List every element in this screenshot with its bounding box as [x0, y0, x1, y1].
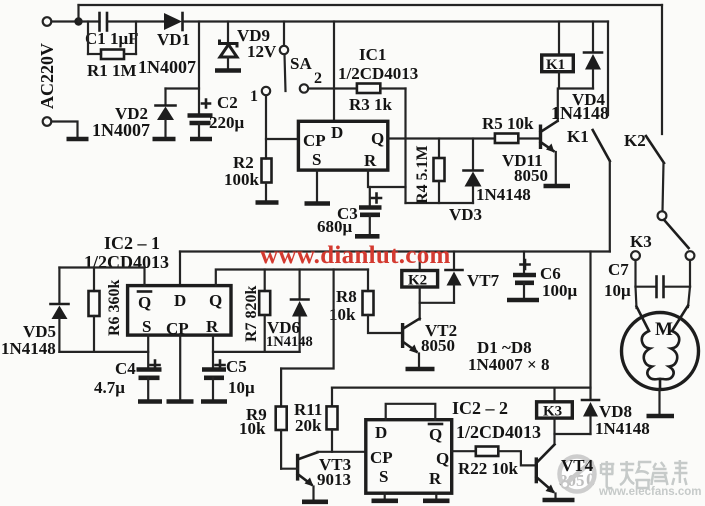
svg-text:1: 1 — [250, 88, 258, 105]
svg-text:10μ: 10μ — [604, 281, 631, 300]
wire R3 drop to R node — [404, 89, 406, 204]
label 1N4007 — [92, 120, 150, 140]
wire D pin riser IC2-1 — [179, 252, 181, 286]
svg-text:M: M — [655, 319, 673, 340]
svg-text:Q: Q — [209, 291, 222, 310]
svg-text:R: R — [206, 317, 219, 336]
wire R7 VD6 bottom line — [213, 351, 300, 353]
label AC220V — [37, 43, 57, 109]
capacitor C6 — [513, 252, 536, 298]
wire 12V rail drop to K1 contact — [607, 22, 609, 116]
ground IC2-2 R — [423, 498, 450, 503]
watermark elecfans logo — [560, 457, 595, 492]
svg-text:C5: C5 — [226, 357, 247, 376]
capacitor C4 — [137, 361, 162, 399]
ground VD11 emitter — [544, 184, 571, 189]
label VT3 — [319, 455, 351, 474]
resistor R4 — [434, 139, 445, 204]
label 100u — [542, 281, 578, 300]
pin CP — [303, 131, 326, 150]
label C1 1uF — [85, 29, 139, 48]
wire VD8 to K3 bottom — [555, 433, 591, 435]
label SA — [290, 54, 312, 73]
wire VT3 collector to CP — [317, 451, 365, 453]
pin R — [206, 317, 219, 336]
label R11 — [294, 400, 322, 419]
zener VD9 — [220, 22, 238, 69]
wire contact1 down — [265, 96, 267, 159]
label 10k — [239, 419, 266, 438]
node junction dot — [74, 17, 82, 25]
capacitor C3 — [359, 187, 382, 234]
label VD2 — [115, 104, 148, 123]
label K3 — [630, 232, 652, 251]
svg-text:C2: C2 — [217, 93, 238, 112]
resistor R7 — [259, 270, 270, 352]
op-amp IC1 box — [298, 121, 387, 170]
label C2 — [217, 93, 238, 112]
svg-text:10μ: 10μ — [228, 378, 255, 397]
ground C4 — [138, 399, 162, 404]
svg-text:SA: SA — [290, 54, 312, 73]
pin S — [312, 150, 321, 169]
svg-text:K1: K1 — [546, 57, 565, 73]
ground motor — [647, 414, 675, 419]
svg-text:220μ: 220μ — [209, 113, 245, 132]
pin Q — [436, 449, 449, 468]
label 1 — [250, 88, 258, 105]
svg-text:R8: R8 — [336, 287, 357, 306]
svg-text:C1 1μF: C1 1μF — [85, 29, 139, 48]
label C5 — [226, 357, 247, 376]
label R2 — [233, 153, 254, 172]
capacitor C7 — [636, 260, 691, 297]
wire K1 drop to K3 branch — [589, 252, 591, 400]
label 20k — [295, 416, 322, 435]
label R22 10k — [458, 459, 519, 478]
label R8 — [336, 287, 357, 306]
wire lower terminal — [52, 122, 78, 137]
label R4 5.1M — [414, 145, 431, 204]
svg-text:9013: 9013 — [317, 470, 351, 489]
ground VD2 — [153, 137, 176, 142]
wire R11 K3 top line — [332, 387, 591, 389]
transistor VT3 — [281, 452, 317, 499]
wire S pin stem — [147, 335, 149, 369]
label 10u — [604, 281, 631, 300]
svg-text:100μ: 100μ — [542, 281, 578, 300]
svg-text:Q: Q — [436, 449, 449, 468]
resistor R2 — [262, 159, 272, 201]
switch K3 selector blade — [631, 220, 694, 260]
label 1N4007 — [138, 57, 196, 77]
label K2 — [624, 131, 646, 150]
svg-text:Q: Q — [138, 293, 151, 312]
ground R2 — [256, 200, 279, 205]
svg-text:680μ: 680μ — [317, 217, 353, 236]
transistor VT2 — [403, 319, 420, 367]
svg-text:CP: CP — [303, 131, 326, 150]
wire R9 feed drop — [281, 270, 334, 369]
label VT7 — [467, 271, 500, 290]
label R1 1M — [87, 61, 137, 80]
label VD4 — [572, 90, 606, 109]
svg-text:1N4148: 1N4148 — [476, 185, 531, 204]
label 1N4148 — [266, 334, 313, 350]
svg-text:VD1: VD1 — [157, 30, 190, 49]
label 10k — [329, 305, 356, 324]
pin Qbar — [429, 424, 442, 444]
label VD8 — [599, 402, 632, 421]
label VD1 — [157, 30, 190, 49]
ground C6 — [507, 298, 539, 303]
diode VD2 — [156, 106, 176, 137]
label VD11 — [502, 151, 543, 170]
label 220u — [209, 113, 245, 132]
svg-text:K3: K3 — [543, 404, 562, 420]
label 8050 — [421, 336, 455, 355]
label 10u — [228, 378, 255, 397]
label VT4 — [561, 456, 594, 475]
ground VT4 — [543, 498, 575, 503]
ground VT3 — [302, 499, 328, 504]
pin CP — [370, 448, 393, 467]
pin D — [331, 123, 343, 142]
svg-text:www.dianlut.com: www.dianlut.com — [260, 242, 451, 269]
svg-text:R: R — [364, 151, 377, 170]
resistor R9 — [276, 369, 287, 469]
svg-text:R22 10k: R22 10k — [458, 459, 519, 478]
label VD9 — [237, 26, 270, 45]
pin Q — [371, 129, 384, 148]
svg-text:R: R — [429, 469, 442, 488]
svg-text:Q: Q — [371, 129, 384, 148]
wire Q output line — [388, 137, 495, 139]
svg-text:12V: 12V — [247, 42, 277, 61]
label 1/2CD4013 — [84, 252, 169, 272]
svg-text:4.7μ: 4.7μ — [94, 378, 125, 397]
label C3 — [337, 204, 358, 223]
flip-flop IC2-1 box — [128, 286, 231, 336]
diode VT7 — [446, 252, 463, 303]
svg-text:1/2CD4013: 1/2CD4013 — [338, 64, 418, 83]
label 9013 — [317, 470, 351, 489]
svg-text:www.elecfans.com: www.elecfans.com — [598, 486, 701, 498]
label 680u — [317, 217, 353, 236]
svg-text:1N4148: 1N4148 — [266, 334, 313, 350]
ground C2 — [190, 137, 212, 142]
svg-text:D: D — [174, 291, 186, 310]
label 1N4148 — [551, 103, 609, 123]
label 1/2CD4013 — [338, 64, 418, 83]
svg-text:R3 1k: R3 1k — [349, 95, 393, 114]
label 1N4148 — [595, 419, 650, 438]
svg-text:1N4007 × 8: 1N4007 × 8 — [468, 355, 549, 374]
wire top rail riser — [77, 5, 79, 22]
node lower AC terminal — [43, 117, 52, 126]
svg-text:S: S — [312, 150, 321, 169]
node SA contact 2 — [300, 84, 308, 92]
resistor R8 — [363, 270, 403, 334]
svg-text:8050: 8050 — [514, 166, 548, 185]
resistor R6 — [89, 268, 100, 352]
relay coil K2 — [402, 252, 438, 320]
watermark elecfans chinese — [601, 460, 687, 488]
pin Qbar — [138, 292, 151, 313]
svg-text:S: S — [142, 317, 151, 336]
ground lower terminal — [67, 137, 89, 142]
wire S ground stem — [384, 493, 386, 498]
ground C5 — [201, 399, 227, 404]
wire D line vertical — [333, 22, 335, 122]
svg-text:VT4: VT4 — [561, 456, 594, 475]
label R6 360k — [106, 279, 123, 336]
wire S line bottom left — [59, 351, 148, 353]
diode VD6 — [291, 270, 309, 352]
pin R — [364, 151, 377, 170]
resistor R22 — [452, 447, 537, 466]
label R3 1k — [349, 95, 393, 114]
wire Q riser and 270 line — [216, 270, 368, 286]
svg-text:1N4148: 1N4148 — [595, 419, 650, 438]
label 4.7u — [94, 378, 125, 397]
label VD6 — [267, 318, 300, 337]
pin D — [375, 423, 387, 442]
label D1~D8 — [477, 338, 532, 357]
pin Q — [209, 291, 222, 310]
label R5 10k — [482, 114, 534, 133]
ground C3 — [355, 234, 380, 239]
wire K1 VD4 join — [559, 87, 593, 89]
diode VD1 — [164, 13, 608, 30]
wire Qbar riser and left top line — [59, 268, 144, 286]
wire VT7 to K2 collector node — [420, 302, 454, 304]
label VD5 — [23, 322, 56, 341]
svg-text:2: 2 — [314, 70, 322, 87]
wire right edge drop to K2 — [661, 5, 663, 134]
transistor VT4 — [536, 445, 555, 498]
switch K1 — [593, 130, 610, 252]
label 12V — [247, 42, 277, 61]
svg-text:1/2CD4013: 1/2CD4013 — [84, 252, 169, 272]
svg-text:K2: K2 — [408, 273, 427, 289]
pin S — [142, 317, 151, 336]
label R9 — [246, 405, 267, 424]
wire R pin stem — [212, 335, 214, 369]
pin S — [379, 467, 388, 486]
svg-text:CP: CP — [166, 319, 189, 338]
transistor VD11 — [541, 89, 558, 184]
motor M — [622, 287, 699, 413]
wire R4 VD3 bottom line — [406, 202, 474, 204]
ground CP — [167, 399, 194, 404]
pin R — [429, 469, 442, 488]
relay coil K1 — [542, 22, 574, 89]
svg-text:R6 360k: R6 360k — [106, 279, 123, 336]
ground VT2 — [406, 367, 435, 372]
svg-text:8050: 8050 — [421, 336, 455, 355]
resistor R1 — [88, 22, 136, 60]
diode VD8 — [582, 400, 599, 434]
svg-text:1N4148: 1N4148 — [551, 103, 609, 123]
pin D — [174, 291, 186, 310]
svg-text:K3: K3 — [630, 232, 652, 251]
label IC1 — [359, 45, 386, 64]
wire top rail — [79, 4, 663, 6]
label 1N4007x8 — [468, 355, 549, 374]
svg-text:IC2 – 1: IC2 – 1 — [104, 233, 160, 253]
label VT2 — [425, 321, 457, 340]
svg-text:Q: Q — [429, 425, 442, 444]
label C6 — [540, 264, 561, 283]
svg-text:C7: C7 — [608, 260, 629, 279]
svg-text:D: D — [375, 423, 387, 442]
ground IC2-2 S — [372, 498, 399, 503]
svg-text:K2: K2 — [624, 131, 646, 150]
label C7 — [608, 260, 629, 279]
label K1 — [567, 127, 589, 146]
svg-text:R1 1M: R1 1M — [87, 61, 137, 80]
switch SA pole — [280, 22, 288, 92]
label IC2-1 — [104, 233, 160, 253]
svg-text:R7 820k: R7 820k — [243, 285, 260, 342]
capacitor C2 — [188, 100, 213, 137]
svg-text:100k: 100k — [224, 170, 260, 189]
label R7 820k — [243, 285, 260, 342]
svg-text:1/2CD4013: 1/2CD4013 — [456, 422, 541, 442]
label 1N4148 — [1, 339, 56, 358]
diode VD5 — [51, 268, 69, 352]
label IC2-2 — [452, 398, 508, 418]
svg-text:C4: C4 — [115, 359, 136, 378]
capacitor C1 — [79, 13, 164, 31]
label 1N4148 — [476, 185, 531, 204]
svg-text:S: S — [379, 467, 388, 486]
wire D Qbar bridge — [386, 404, 436, 420]
svg-text:VT7: VT7 — [467, 271, 500, 290]
resistor R3 — [334, 84, 406, 94]
diode VD4 — [584, 22, 602, 89]
svg-text:1N4007: 1N4007 — [92, 120, 150, 140]
resistor R5 — [495, 134, 540, 144]
wire R pin to C3 — [368, 170, 406, 187]
node SA contact 1 — [262, 87, 270, 95]
flip-flop IC2-2 box — [366, 420, 452, 494]
wire R ground stem — [435, 493, 437, 498]
svg-text:D: D — [331, 123, 343, 142]
svg-text:20k: 20k — [295, 416, 322, 435]
svg-text:IC2 – 2: IC2 – 2 — [452, 398, 508, 418]
wire CP ground stem — [179, 335, 181, 398]
switch K2 — [646, 136, 666, 220]
svg-text:AC220V: AC220V — [37, 43, 57, 109]
relay coil K3 — [537, 388, 573, 444]
svg-text:10k: 10k — [239, 419, 266, 438]
watermark elecfans url — [598, 486, 701, 498]
label C4 — [115, 359, 136, 378]
svg-text:1N4007: 1N4007 — [138, 57, 196, 77]
wire top terminal to node — [52, 20, 79, 22]
wire main mid rail — [180, 250, 610, 252]
capacitor C5 — [202, 361, 226, 399]
label 8050 — [559, 470, 596, 491]
label 8050 — [514, 166, 548, 185]
wire VD2 branch — [166, 22, 200, 114]
watermark red dianlut — [260, 242, 451, 269]
diode VD3 — [464, 139, 483, 204]
svg-text:R5 10k: R5 10k — [482, 114, 534, 133]
label 100k — [224, 170, 260, 189]
label 1/2CD4013 — [456, 422, 541, 442]
node top AC terminal — [43, 17, 52, 26]
svg-text:VD3: VD3 — [449, 205, 482, 224]
ground S — [305, 201, 331, 206]
wire contact2 to D line — [309, 87, 335, 89]
wire S ground stem — [316, 170, 318, 201]
label VD3 — [449, 205, 482, 224]
resistor R11 — [327, 388, 338, 452]
svg-text:IC1: IC1 — [359, 45, 386, 64]
label 2 — [314, 70, 322, 87]
svg-text:1N4148: 1N4148 — [1, 339, 56, 358]
svg-text:R4 5.1M: R4 5.1M — [414, 145, 431, 204]
wire CP feed — [266, 138, 298, 140]
svg-text:K1: K1 — [567, 127, 589, 146]
svg-text:CP: CP — [370, 448, 393, 467]
pin CP — [166, 319, 189, 338]
ground VD9 — [215, 68, 241, 73]
